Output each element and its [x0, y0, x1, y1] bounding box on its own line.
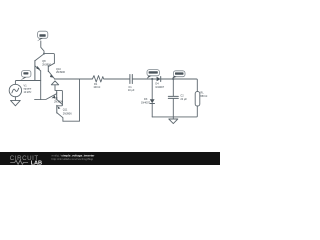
svg-text:2N3906: 2N3906	[63, 111, 73, 115]
svg-text:2N3906: 2N3906	[42, 62, 52, 66]
svg-text:Q9: Q9	[54, 96, 58, 100]
svg-text:1N4007: 1N4007	[141, 100, 151, 104]
svg-text:Q10: Q10	[56, 67, 61, 71]
svg-text:2N3906: 2N3906	[54, 99, 64, 103]
svg-text:1N4007: 1N4007	[155, 85, 165, 89]
svg-text:Q8: Q8	[42, 59, 46, 63]
svg-text:Q11: Q11	[63, 108, 68, 112]
svg-text:100 Ω: 100 Ω	[93, 85, 100, 89]
svg-text:650 Ω: 650 Ω	[200, 94, 207, 98]
svg-text:LAB: LAB	[31, 161, 42, 166]
svg-text:D3: D3	[144, 97, 148, 101]
svg-text:10 kHz: 10 kHz	[24, 90, 33, 94]
svg-text:2N3906: 2N3906	[56, 70, 66, 74]
svg-text:http://circuitlab.com/cvsr4mg3: http://circuitlab.com/cvsr4mg39qp	[52, 157, 94, 161]
svg-text:C2: C2	[180, 94, 184, 98]
svg-text:10 µF: 10 µF	[128, 88, 135, 92]
svg-text:22 µF: 22 µF	[180, 97, 187, 101]
